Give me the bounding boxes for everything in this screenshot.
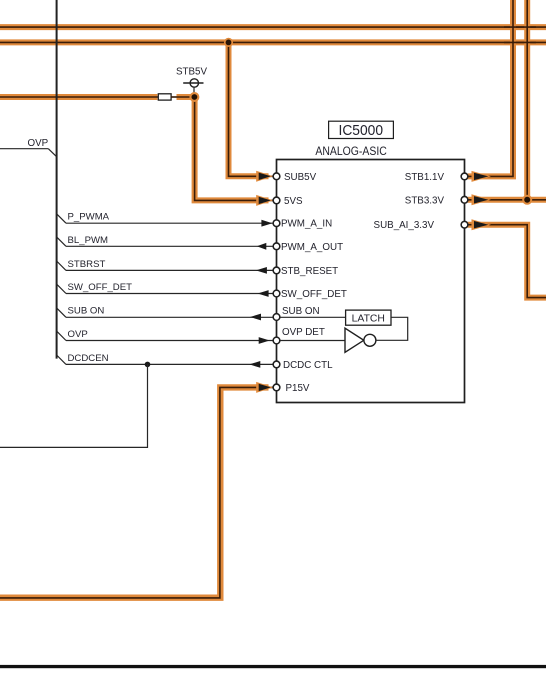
wire P_PWMA	[57, 212, 274, 227]
svg-text:SW_OFF_DET: SW_OFF_DET	[68, 282, 133, 293]
sheet border bottom	[0, 665, 546, 668]
wire SUB ON	[57, 306, 274, 321]
pin DCDC CTL	[273, 360, 333, 371]
svg-text:PWM_A_IN: PWM_A_IN	[281, 219, 332, 230]
junction STB3.3V	[522, 195, 532, 205]
wire P15V net	[0, 387, 273, 598]
wire OVP row	[57, 329, 274, 344]
wire BL_PWM	[57, 235, 274, 250]
pin OVP DET	[273, 327, 325, 344]
svg-text:STBRST: STBRST	[68, 259, 106, 270]
label ANALOG-ASIC	[315, 144, 387, 158]
svg-text:DCDC CTL: DCDC CTL	[283, 360, 333, 371]
wire STBRST	[57, 259, 274, 274]
svg-text:OVP: OVP	[28, 138, 49, 149]
arrow into SUB5V pin (orange highlighted)	[256, 171, 273, 182]
wire OVP DET internal to inverter	[280, 340, 345, 342]
svg-text:DCDCEN: DCDCEN	[68, 353, 109, 364]
pin STB_RESET	[273, 266, 338, 277]
net label OVP (top left entry)	[0, 138, 57, 157]
latch U? LATCH box	[346, 310, 391, 325]
wire SUB_AI_3.3V net	[468, 225, 546, 298]
inverter gate (with bubble)	[345, 328, 376, 352]
svg-text:P15V: P15V	[286, 383, 310, 394]
wire OVP left orange horizontal to resistor	[0, 94, 158, 100]
arrow into 5VS pin (orange highlighted)	[256, 195, 273, 206]
svg-text:BL_PWM: BL_PWM	[68, 235, 109, 246]
arrow out of STB1.1V pin (orange highlighted)	[472, 171, 492, 182]
arrow into P15V pin (orange highlighted)	[256, 382, 273, 393]
pin P15V	[273, 383, 310, 394]
junction DCDCEN branch	[145, 362, 151, 368]
svg-text:STB5V: STB5V	[176, 67, 208, 78]
wire DCDCEN	[57, 353, 274, 368]
wire 5VS net: STB5V node down to pin 5VS	[171, 97, 273, 200]
wire SW_OFF_DET	[57, 282, 274, 297]
IC IC5000 ANALOG-ASIC body	[277, 160, 465, 403]
pin SUB5V	[273, 172, 316, 183]
junction on top net 2	[224, 38, 233, 47]
junction STB5V node	[189, 92, 199, 102]
wire resistor to STB5V node	[171, 96, 195, 98]
arrow out of SUB_AI_3.3V pin (orange highlighted)	[472, 219, 492, 230]
wire top horizontal net 2	[0, 39, 546, 45]
svg-text:SW_OFF_DET: SW_OFF_DET	[281, 289, 347, 300]
svg-text:LATCH: LATCH	[352, 314, 385, 325]
wire STB1.1V net	[468, 0, 513, 176]
svg-text:OVP DET: OVP DET	[282, 327, 325, 338]
svg-text:STB3.3V: STB3.3V	[405, 195, 445, 206]
wire top horizontal net 1	[0, 24, 546, 30]
svg-text:SUB_AI_3.3V: SUB_AI_3.3V	[374, 220, 435, 231]
wire STB3.3V net	[468, 0, 546, 200]
svg-text:IC5000: IC5000	[339, 122, 384, 139]
pin 5VS	[273, 196, 303, 207]
svg-text:PWM_A_OUT: PWM_A_OUT	[281, 242, 343, 253]
wire top horizontal cores at vertical crossings	[504, 27, 536, 42]
resistor (series, unlabeled)	[158, 94, 171, 100]
svg-text:5VS: 5VS	[284, 196, 303, 207]
arrow out of STB3.3V pin (orange highlighted)	[472, 194, 492, 205]
pin PWM_A_OUT	[273, 242, 343, 253]
svg-text:SUB ON: SUB ON	[68, 306, 105, 317]
svg-text:SUB ON: SUB ON	[282, 306, 320, 317]
wire SUB ON internal to LATCH	[280, 316, 346, 318]
power symbol STB5V	[176, 67, 208, 98]
wire DCDCEN branch down and left	[0, 364, 148, 447]
svg-text:OVP: OVP	[68, 329, 88, 340]
svg-text:STB_RESET: STB_RESET	[281, 266, 338, 277]
pin STB1.1V	[405, 172, 468, 183]
wire SUB5V net: from top net 2 down to pin SUB5V	[229, 42, 274, 176]
svg-text:SUB5V: SUB5V	[284, 172, 317, 183]
pin SUB ON	[273, 306, 319, 321]
bus vertical (left)	[56, 0, 58, 359]
pin STB3.3V	[405, 195, 468, 206]
svg-text:STB1.1V: STB1.1V	[405, 172, 445, 183]
IC5000 reference designator box	[329, 121, 394, 139]
pin SW_OFF_DET	[273, 289, 347, 300]
pin PWM_A_IN	[273, 219, 332, 230]
svg-text:ANALOG-ASIC: ANALOG-ASIC	[315, 144, 387, 158]
pin SUB_AI_3.3V	[374, 220, 468, 231]
svg-text:P_PWMA: P_PWMA	[68, 212, 110, 223]
wire inverter output feedback to LATCH	[376, 317, 408, 340]
